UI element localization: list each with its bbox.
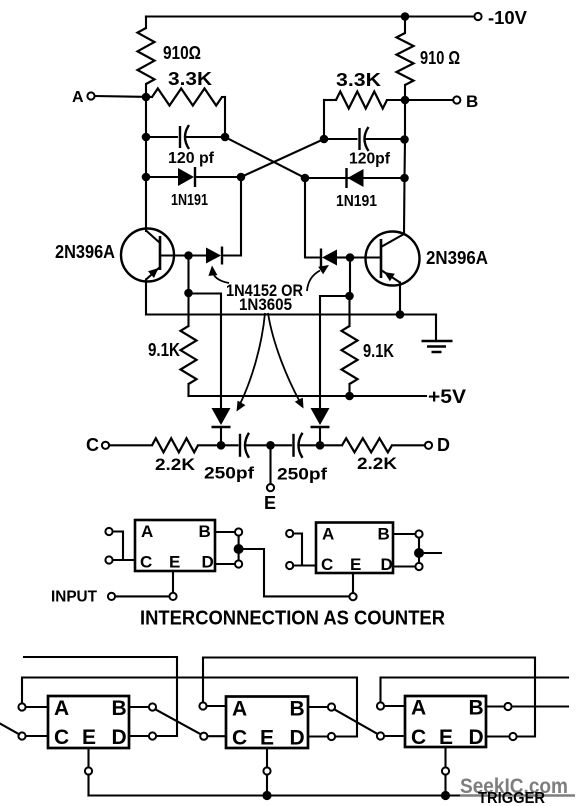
arrow from label to left steering diode <box>239 313 265 406</box>
svg-text:C: C <box>321 555 333 574</box>
diode D2 1N191 (right) <box>305 177 348 179</box>
junction trigger rail U4 <box>262 791 271 800</box>
wire U5 E to trigger rail <box>444 775 446 796</box>
wire node B to terminal B <box>405 99 453 101</box>
diode D5 steering (left, pointing down) <box>212 408 231 425</box>
svg-text:2N396A: 2N396A <box>55 242 115 262</box>
wire U4 E down <box>266 748 268 767</box>
node E junction <box>266 441 275 450</box>
wire U2 B-D tie <box>418 538 420 563</box>
svg-text:D: D <box>202 553 214 572</box>
wire U2 A-C tie <box>293 534 302 566</box>
counter block U5 <box>405 696 486 747</box>
svg-text:C: C <box>411 726 426 749</box>
wire U3 E to trigger rail <box>87 775 89 796</box>
resistor R6 9.1K (right) <box>348 296 350 326</box>
wire 3.3K right to cap node <box>323 100 325 139</box>
resistor R8 2.2K (right) <box>320 444 342 446</box>
wire Q2 base branch down <box>349 258 351 297</box>
wire U5 A input <box>384 705 405 707</box>
junction left diode row right end <box>237 173 246 182</box>
junction on -10V rail at right 910 ohm resistor <box>401 12 410 21</box>
svg-text:C: C <box>86 435 99 455</box>
resistor R3 3.3K (left) <box>152 89 222 106</box>
resistor R4 3.3K (right) <box>336 92 387 109</box>
wire C to 2.2K <box>109 444 152 446</box>
svg-text:250pf: 250pf <box>277 465 327 484</box>
wire U5 C input <box>384 735 405 737</box>
U5 terminal C <box>377 732 384 739</box>
terminal E <box>267 484 274 491</box>
svg-text:D: D <box>290 727 305 750</box>
counter block U2 <box>316 523 393 574</box>
svg-text:D: D <box>381 555 393 574</box>
resistor R5 9.1K (left) <box>187 294 189 327</box>
wire U2 C input <box>293 564 316 566</box>
junction left cap row / rail <box>142 133 151 142</box>
node -10V supply rail (top) <box>146 15 475 17</box>
U4 terminal C <box>200 733 207 740</box>
wire U1 A-C tie <box>113 532 123 561</box>
terminal B <box>453 96 460 103</box>
wire cross-coupling diagonal left-to-right <box>225 137 305 178</box>
capacitor C3 250pf (left) <box>221 444 238 446</box>
wire terminal A to node A <box>95 95 141 98</box>
wire U4 E to trigger rail <box>266 775 268 796</box>
wire U2 D output <box>393 565 415 567</box>
wire U5 E down <box>444 747 446 767</box>
svg-text:A: A <box>54 697 69 720</box>
svg-text:E: E <box>350 555 361 574</box>
junction right cap row / rail <box>400 135 409 144</box>
wire Q2 emitter down <box>399 283 401 315</box>
U2 terminal D <box>415 563 422 570</box>
trigger rail <box>89 794 475 796</box>
junction D row / right steering diode <box>316 441 325 450</box>
svg-text:B: B <box>290 698 305 721</box>
wire feedback rail D3-to-A2 <box>203 658 535 737</box>
U5 terminal E <box>442 767 449 774</box>
svg-text:D: D <box>112 726 127 749</box>
counter block U3 <box>48 696 129 748</box>
svg-text:E: E <box>260 727 274 750</box>
svg-text:B: B <box>199 522 211 541</box>
junction Q2 base node <box>346 253 355 262</box>
svg-text:120 pf: 120 pf <box>168 150 215 167</box>
wire Q1 base branch down <box>187 256 189 294</box>
junction left cap row right end <box>221 133 230 142</box>
ground <box>422 341 453 352</box>
wire U3 A input <box>26 706 48 708</box>
wire Q1 emitter down and emitter rail <box>146 280 436 315</box>
U3 terminal D <box>149 732 156 739</box>
svg-text:E: E <box>439 726 453 749</box>
resistor R2 910 ohm (right) <box>404 17 406 34</box>
wire U3 C input <box>26 735 48 737</box>
wire U4 B output <box>308 706 328 708</box>
capacitor C4 250pf (right) <box>271 444 292 446</box>
U2 terminal E <box>349 593 356 600</box>
diode D4 1N4152/1N3605 (right, at Q2 base) <box>338 256 350 258</box>
wire U5 D output <box>486 735 509 737</box>
arrow from label to right steering diode <box>268 313 300 402</box>
svg-text:250pf: 250pf <box>204 464 254 483</box>
wire branch to right steering diode <box>320 296 350 409</box>
wire feedback rail A3-to-right <box>381 678 569 703</box>
U1 terminal D <box>235 560 242 567</box>
U4 terminal E <box>263 767 270 774</box>
counter block U1 <box>135 520 215 571</box>
wire INPUT to U1 E <box>115 595 169 597</box>
diode D3 1N4152/1N3605 (left, at Q1 base) <box>160 254 206 256</box>
wire U4 C input <box>207 735 226 737</box>
U3 terminal A <box>18 703 25 710</box>
wire Q2 base <box>350 256 381 258</box>
Q2 emitter arrow (PNP) <box>384 272 395 281</box>
U4 terminal D <box>328 733 335 740</box>
U4 terminal A <box>199 702 206 709</box>
svg-text:E: E <box>264 493 276 513</box>
junction Q1 base node <box>184 251 193 260</box>
svg-text:C: C <box>232 727 247 750</box>
+5V rail <box>189 395 427 397</box>
svg-text:2.2K: 2.2K <box>155 455 196 474</box>
node A junction <box>142 93 151 102</box>
transistor Q2 2N396A (right) <box>366 232 420 286</box>
U3 terminal E <box>85 767 92 774</box>
U5 terminal B <box>504 703 511 710</box>
wire U1 C input <box>113 559 135 561</box>
right vertical rail (collector Q2 line) <box>404 100 405 234</box>
wire cross-coupling diagonal right-to-left <box>241 139 324 177</box>
junction +5V rail / right 9.1K <box>345 392 354 401</box>
svg-text:-10V: -10V <box>488 8 527 28</box>
svg-text:A: A <box>322 525 334 544</box>
svg-text:9.1K: 9.1K <box>363 341 394 361</box>
U3 terminal B <box>149 703 156 710</box>
wire cross branch down right (x=305) <box>305 178 321 258</box>
wire U1 B-D tie <box>238 536 240 561</box>
terminal INPUT <box>108 593 115 600</box>
wire U4 D output <box>308 735 328 737</box>
U1 terminal B <box>235 528 242 535</box>
wire U2 E down <box>352 573 354 593</box>
wire U5 B output <box>486 705 504 707</box>
U1 terminal E <box>169 593 176 600</box>
wire branch to left steering diode <box>189 294 222 410</box>
diode D1 1N191 (left) <box>146 176 179 178</box>
arrow from label to right base diode <box>307 271 320 292</box>
wire feedback rail D1-to-left (top) <box>24 656 177 658</box>
junction trigger rail U5 <box>441 791 450 800</box>
terminal D <box>425 442 432 449</box>
svg-text:A: A <box>141 522 153 541</box>
wire U1 output to U2 trigger <box>243 549 350 596</box>
svg-text:TRIGGER: TRIGGER <box>478 790 545 806</box>
U2 terminal C (left lower) <box>286 562 293 569</box>
svg-text:9.1K: 9.1K <box>148 340 180 360</box>
svg-text:1N191: 1N191 <box>336 193 377 210</box>
svg-text:C: C <box>54 726 69 749</box>
wire U1 E down <box>172 571 174 593</box>
junction Q2 base resistor node <box>345 292 354 301</box>
junction right cap row left end <box>320 135 329 144</box>
U1 terminal C (left lower) <box>105 556 112 563</box>
wire U3 B output <box>129 706 149 708</box>
wire U1 D output <box>215 563 235 565</box>
junction U1 output node <box>234 544 244 554</box>
svg-text:B: B <box>378 525 390 544</box>
diode D6 steering (right, pointing down) <box>311 408 330 425</box>
svg-text:120pf: 120pf <box>349 151 391 168</box>
junction right diode row left end <box>301 174 310 183</box>
svg-text:INTERCONNECTION AS COUNTER: INTERCONNECTION AS COUNTER <box>140 608 446 630</box>
junction C row / left steering diode <box>217 441 226 450</box>
wire U2 B output <box>393 533 415 535</box>
junction U2 output node <box>414 548 424 558</box>
wire diagonal U4 B to U5 C <box>334 709 378 734</box>
capacitor C1 120pf (left) <box>146 136 177 138</box>
svg-text:2.2K: 2.2K <box>357 454 398 473</box>
wire trigger chain diagonal into U3 C <box>0 724 19 735</box>
svg-text:E: E <box>82 726 96 749</box>
terminal -10V <box>474 13 481 20</box>
svg-text:910Ω: 910Ω <box>163 43 201 63</box>
svg-text:1N3605: 1N3605 <box>239 296 292 314</box>
U3 terminal C <box>18 732 25 739</box>
node B junction <box>401 96 410 105</box>
svg-text:3.3K: 3.3K <box>336 70 381 90</box>
wire to ground <box>435 315 437 342</box>
arrow from label to left base diode <box>213 270 230 283</box>
wire U4 A input <box>207 705 226 707</box>
svg-text:1N191: 1N191 <box>171 192 208 209</box>
U4 terminal B <box>328 703 335 710</box>
U1 terminal A (left upper) <box>105 528 112 535</box>
wire U1 B output <box>215 531 235 533</box>
transistor Q1 2N396A (left) <box>121 229 174 282</box>
junction left diode row / rail <box>142 173 151 182</box>
Q1 emitter arrow (PNP) <box>148 268 159 278</box>
wire node E to terminal E <box>269 445 271 484</box>
resistor R1 910 ohm (left) <box>145 17 147 29</box>
svg-text:A: A <box>411 697 426 720</box>
wire U3 D output <box>129 735 149 737</box>
wire feedback rail D2-to-A1 <box>22 678 357 737</box>
capacitor C2 120pf (right) <box>324 138 357 140</box>
svg-text:INPUT: INPUT <box>51 589 97 606</box>
junction Q1 base resistor node <box>184 289 193 298</box>
svg-text:B: B <box>466 92 478 111</box>
svg-text:3.3K: 3.3K <box>168 69 212 89</box>
junction emitter rail / ground stub <box>396 310 405 319</box>
svg-text:910 Ω: 910 Ω <box>420 48 460 68</box>
svg-text:+5V: +5V <box>428 387 466 408</box>
svg-text:2N396A: 2N396A <box>426 248 488 268</box>
wire U5 B output to right edge <box>512 705 568 707</box>
wire U3 E down <box>87 748 89 767</box>
resistor R7 2.2K (left) <box>152 438 198 452</box>
svg-text:A: A <box>72 89 84 106</box>
svg-text:D: D <box>437 435 450 455</box>
wire cross branch down left (x=241) <box>223 177 241 256</box>
U2 terminal A (left upper) <box>286 530 293 537</box>
svg-text:A: A <box>232 698 247 721</box>
U5 terminal D <box>509 733 516 740</box>
svg-text:B: B <box>112 697 127 720</box>
counter block U4 <box>226 697 308 749</box>
U5 terminal A <box>377 702 384 709</box>
wire diagonal U3 B to U4 C <box>155 709 200 734</box>
wire 3.3K left to cross-coupling node <box>224 97 226 137</box>
wire U2 output stub <box>423 552 441 554</box>
wire U3 D to feedback rail <box>156 657 177 736</box>
terminal A <box>87 92 94 99</box>
svg-text:D: D <box>469 726 484 749</box>
U2 terminal B <box>415 530 422 537</box>
svg-text:E: E <box>169 553 180 572</box>
terminal C <box>102 442 109 449</box>
svg-text:C: C <box>140 553 152 572</box>
junction right diode row / rail <box>400 174 409 183</box>
svg-text:B: B <box>469 697 484 720</box>
left vertical rail (collector Q1 line) <box>145 97 147 231</box>
